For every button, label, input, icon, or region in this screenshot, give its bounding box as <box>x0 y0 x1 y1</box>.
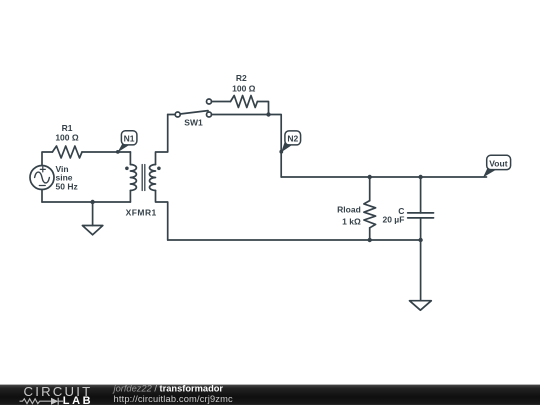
svg-text:LAB: LAB <box>63 395 93 405</box>
logo zigzag wire <box>20 399 52 404</box>
svg-text:N1: N1 <box>124 134 135 144</box>
ground <box>410 240 432 310</box>
wire <box>212 101 231 103</box>
svg-text:50 Hz: 50 Hz <box>56 181 78 191</box>
wire <box>281 176 486 178</box>
wire <box>42 201 130 203</box>
junction <box>418 238 422 242</box>
wire <box>156 115 168 165</box>
svg-text:20 µF: 20 µF <box>382 215 404 225</box>
ground <box>82 202 102 235</box>
svg-text:100 Ω: 100 Ω <box>55 132 79 142</box>
svg-text:R2: R2 <box>236 73 247 83</box>
capacitor C <box>408 177 434 240</box>
junction <box>90 200 94 204</box>
svg-text:SW1: SW1 <box>184 118 203 128</box>
svg-text:Vout: Vout <box>489 159 507 169</box>
footer bar <box>0 385 540 405</box>
wire <box>269 115 282 178</box>
switch SW1 <box>175 99 211 117</box>
transformer XFMR1 <box>125 152 161 202</box>
wire <box>212 114 269 116</box>
junction <box>266 112 270 116</box>
node flag N1 <box>116 131 137 154</box>
wire <box>156 191 168 241</box>
node flag N2 <box>279 131 300 154</box>
svg-text:1 kΩ: 1 kΩ <box>342 217 361 227</box>
wire <box>168 239 421 241</box>
svg-text:XFMR1: XFMR1 <box>126 208 157 218</box>
resistor Rload <box>364 177 376 240</box>
logo diode <box>51 398 58 405</box>
junction <box>418 175 422 179</box>
svg-text:100 Ω: 100 Ω <box>232 84 256 94</box>
voltage source Vin <box>30 152 54 202</box>
node flag Vout <box>483 155 511 177</box>
svg-text:http://circuitlab.com/crj9zmc: http://circuitlab.com/crj9zmc <box>114 394 234 404</box>
wire <box>257 102 268 115</box>
junction <box>368 238 372 242</box>
svg-text:N2: N2 <box>287 134 298 144</box>
svg-text:Rload: Rload <box>337 205 361 215</box>
wire <box>168 114 175 116</box>
resistor R1 <box>52 146 82 158</box>
resistor R2 <box>231 96 258 108</box>
svg-text:jorfdez22 / transformador: jorfdez22 / transformador <box>112 383 224 393</box>
wire <box>82 151 130 153</box>
junction <box>368 175 372 179</box>
